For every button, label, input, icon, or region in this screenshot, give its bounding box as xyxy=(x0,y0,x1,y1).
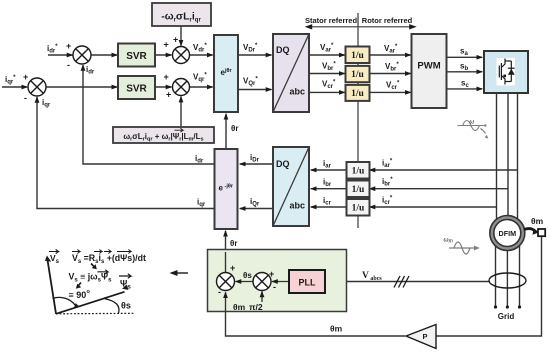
svg-text:iqr: iqr xyxy=(42,98,51,109)
svg-text:-: - xyxy=(67,60,70,70)
svg-text:1/u: 1/u xyxy=(351,89,364,99)
svg-text:DFIM: DFIM xyxy=(499,229,517,238)
svg-text:Vbr*: Vbr* xyxy=(322,62,336,73)
svg-text:Vs: Vs xyxy=(50,253,60,265)
svg-text:+: + xyxy=(164,72,169,82)
svg-text:ibr*: ibr* xyxy=(382,177,393,188)
svg-text:Rotor referred: Rotor referred xyxy=(362,16,413,25)
svg-text:DQ: DQ xyxy=(276,159,290,169)
svg-text:1/u: 1/u xyxy=(352,185,365,195)
svg-text:sb: sb xyxy=(460,62,468,73)
svg-text:1/u: 1/u xyxy=(352,204,365,214)
svg-text:VQr*: VQr* xyxy=(243,77,258,88)
svg-text:SVR: SVR xyxy=(126,84,147,95)
svg-text:idr: idr xyxy=(86,65,95,76)
svg-text:icr: icr xyxy=(323,196,332,207)
svg-text:Vcr*: Vcr* xyxy=(322,80,336,91)
svg-text:iQr: iQr xyxy=(250,197,260,208)
svg-text:1/u: 1/u xyxy=(351,70,364,80)
svg-text:Var*: Var* xyxy=(384,44,398,55)
svg-text:+: + xyxy=(23,72,28,82)
svg-text:π/2: π/2 xyxy=(249,302,263,312)
svg-text:+: + xyxy=(66,41,71,51)
svg-text:sa: sa xyxy=(460,47,468,58)
svg-text:1/u: 1/u xyxy=(351,51,364,61)
svg-text:ωm: ωm xyxy=(444,237,453,245)
svg-text:VDr*: VDr* xyxy=(243,43,258,54)
svg-text:ibr: ibr xyxy=(323,178,332,189)
svg-text:idr: idr xyxy=(195,154,204,165)
svg-text:iqr*: iqr* xyxy=(5,75,16,86)
svg-text:θm: θm xyxy=(330,324,343,334)
svg-text:Vqr*: Vqr* xyxy=(193,73,207,84)
svg-text:ω: ω xyxy=(470,120,475,126)
svg-text:SVR: SVR xyxy=(126,51,147,62)
svg-text:Vcr*: Vcr* xyxy=(386,81,400,92)
svg-text:V abcs: V abcs xyxy=(362,271,382,282)
svg-text:Vbr*: Vbr* xyxy=(385,62,399,73)
svg-text:iqr: iqr xyxy=(197,198,206,209)
svg-text:abc: abc xyxy=(290,87,306,97)
svg-text:-: - xyxy=(218,287,221,297)
svg-text:icr*: icr* xyxy=(382,196,393,207)
svg-text:Var*: Var* xyxy=(320,43,334,54)
svg-text:iDr: iDr xyxy=(250,153,260,164)
svg-text:θr: θr xyxy=(231,124,238,133)
svg-text:iar: iar xyxy=(323,159,332,170)
svg-text:PWM: PWM xyxy=(417,61,440,72)
svg-text:idr*: idr* xyxy=(47,44,58,55)
svg-text:+: + xyxy=(166,90,171,100)
svg-text:-: - xyxy=(273,282,276,292)
svg-text:sc: sc xyxy=(461,79,469,90)
svg-text:θm: θm xyxy=(531,216,544,226)
svg-text:o: o xyxy=(87,289,91,295)
svg-text:-: - xyxy=(24,93,27,103)
svg-text:Vs =Rsis +(dΨs)/dt: Vs =Rsis +(dΨs)/dt xyxy=(72,253,146,265)
svg-text:θs: θs xyxy=(243,271,252,280)
svg-text:≡ 90: ≡ 90 xyxy=(69,290,87,300)
svg-text:P: P xyxy=(422,332,427,341)
svg-text:+: + xyxy=(269,269,274,279)
svg-text:+: + xyxy=(173,35,178,45)
svg-text:+: + xyxy=(164,40,169,50)
svg-text:θr: θr xyxy=(230,239,237,248)
svg-text:iar*: iar* xyxy=(382,159,393,170)
svg-text:θm: θm xyxy=(233,302,246,312)
svg-text:Grid: Grid xyxy=(498,312,515,321)
svg-text:PLL: PLL xyxy=(299,278,317,288)
svg-text:DQ: DQ xyxy=(276,45,290,55)
svg-text:Vdr*: Vdr* xyxy=(193,43,207,54)
svg-text:θs: θs xyxy=(121,301,131,311)
svg-text:abc: abc xyxy=(290,201,306,211)
svg-text:+: + xyxy=(230,263,235,273)
svg-text:1/u: 1/u xyxy=(352,167,365,177)
svg-text:Stator referred: Stator referred xyxy=(305,16,358,25)
